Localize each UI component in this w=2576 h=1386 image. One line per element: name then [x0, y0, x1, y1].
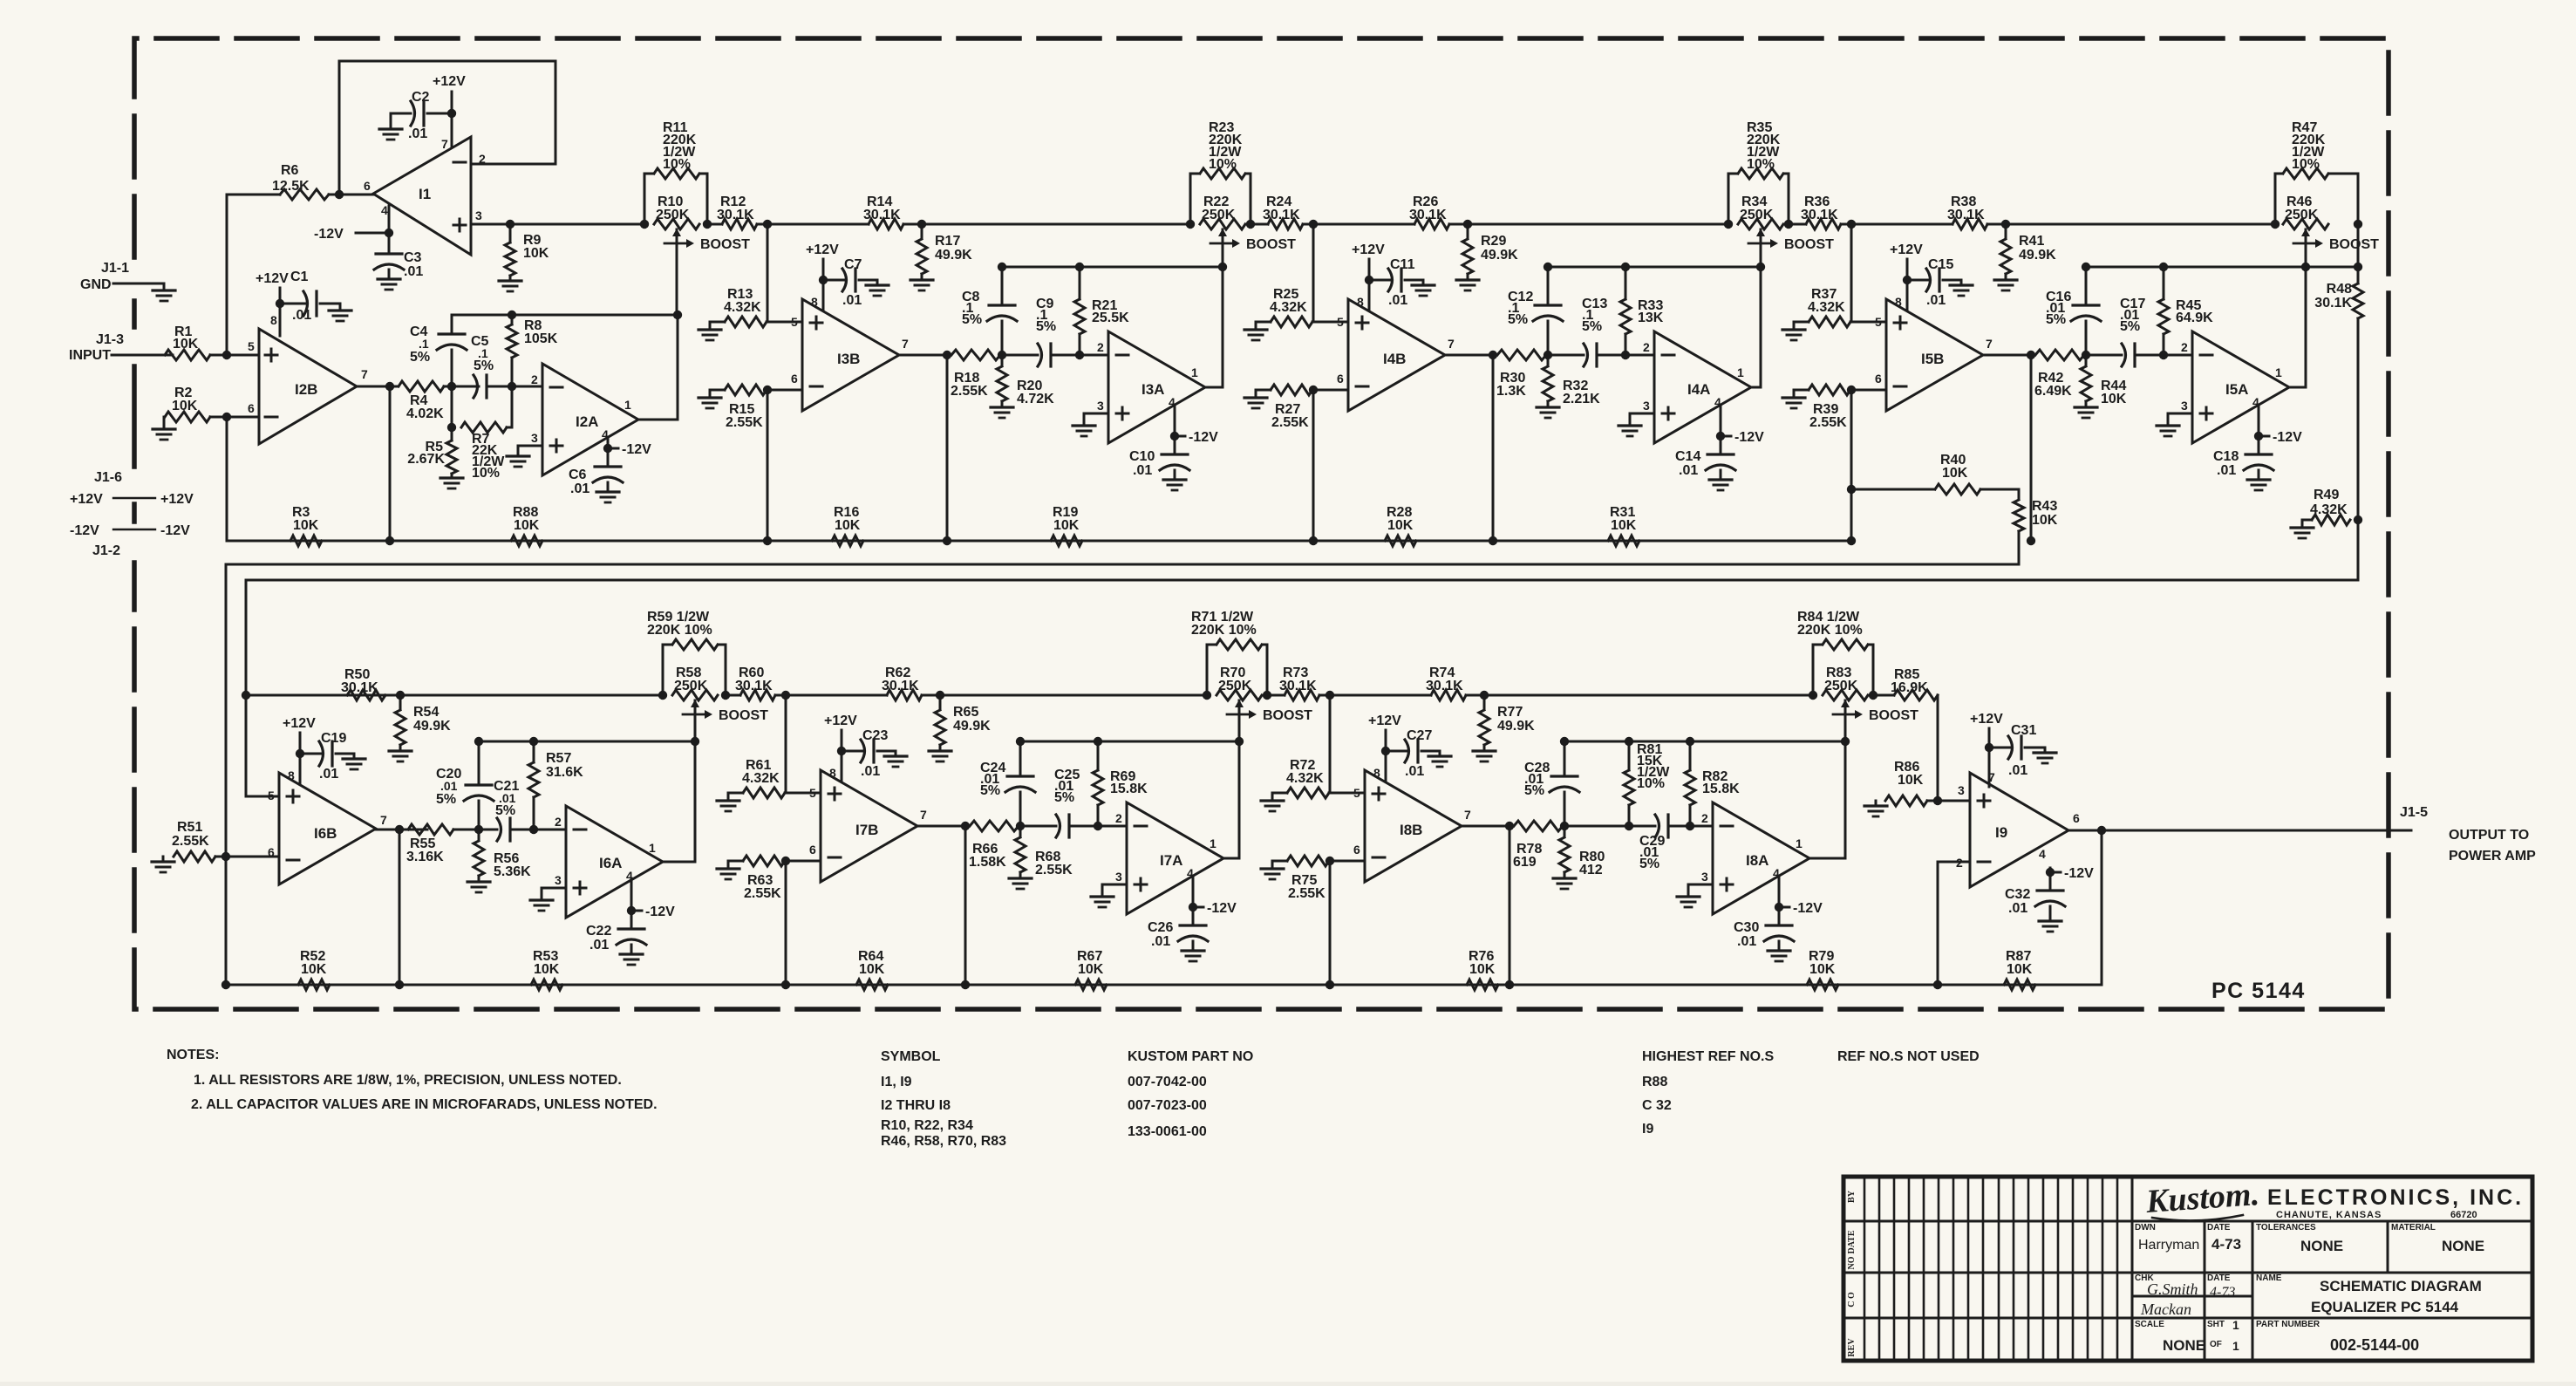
- svg-text:HIGHEST REF NO.S: HIGHEST REF NO.S: [1642, 1049, 1774, 1064]
- node X filter: [1560, 822, 1569, 830]
- potentiometer R10 250K: [640, 220, 649, 229]
- wire cap to R node: [1069, 825, 1127, 828]
- svg-text:10K: 10K: [173, 337, 199, 352]
- svg-text:49.9K: 49.9K: [413, 719, 451, 734]
- svg-text:J1-6: J1-6: [94, 470, 122, 485]
- svg-text:+12V: +12V: [824, 713, 857, 728]
- svg-text:.01: .01: [440, 779, 458, 793]
- boost arrow and label: [1748, 242, 1771, 245]
- svg-text:I2A: I2A: [576, 413, 598, 430]
- svg-text:6: 6: [1353, 843, 1360, 857]
- svg-text:5: 5: [1353, 786, 1360, 800]
- svg-text:4.32K: 4.32K: [1270, 300, 1307, 315]
- svg-text:10K: 10K: [1387, 518, 1414, 533]
- capacitor C16 .01/5%: [2085, 267, 2088, 304]
- svg-text:2. ALL CAPACITOR VALUES ARE: 2. ALL CAPACITOR VALUES ARE IN MICROFARA…: [191, 1097, 658, 1112]
- svg-text:G.Smith: G.Smith: [2147, 1280, 2198, 1298]
- svg-text:15.8K: 15.8K: [1110, 782, 1148, 796]
- wire junction to rail: [389, 386, 392, 541]
- resistor R69 15.8K: [1097, 741, 1100, 770]
- svg-text:DWN: DWN: [2135, 1223, 2156, 1232]
- potentiometer R58 250K: [658, 691, 667, 700]
- wire to -input: [1850, 389, 1886, 392]
- wire to -input: [1312, 389, 1348, 392]
- svg-text:.01: .01: [319, 767, 338, 782]
- op-amp I9: [1970, 773, 2068, 887]
- wire stage6 feedback: [479, 741, 695, 743]
- svg-text:64.9K: 64.9K: [2176, 311, 2213, 325]
- wire pin4 to -12V: [1174, 405, 1176, 436]
- wire pin3 ground stub: [518, 446, 542, 456]
- node cap at feedback wire: [1544, 263, 1552, 271]
- ground at I6A pin3: [530, 898, 553, 901]
- wire bus to input junction: [1850, 224, 1853, 322]
- wire bus to input junction: [785, 695, 787, 793]
- svg-text:10%: 10%: [1747, 157, 1775, 172]
- ground at C14: [1709, 478, 1732, 481]
- svg-text:C30: C30: [1734, 920, 1759, 935]
- svg-text:007-7042-00: 007-7042-00: [1128, 1075, 1207, 1089]
- node wiper feedback: [1235, 737, 1244, 746]
- wire to +input: [1312, 321, 1348, 324]
- node wiper feedback: [2301, 263, 2310, 271]
- svg-text:10K: 10K: [835, 518, 861, 533]
- svg-text:8: 8: [270, 313, 277, 327]
- svg-text:C31: C31: [2011, 723, 2036, 738]
- svg-text:10K: 10K: [514, 518, 540, 533]
- ground at R29: [1456, 278, 1479, 281]
- wire to cap node: [1000, 354, 1038, 357]
- wire to C4 node: [444, 386, 479, 388]
- ground at J1-1: [153, 289, 175, 291]
- svg-text:6: 6: [1875, 372, 1882, 386]
- wire right column to long wire 2: [2357, 520, 2360, 580]
- wire to cap node: [2084, 354, 2122, 357]
- wire bus: [727, 694, 740, 697]
- wire C5 to pin2: [487, 386, 542, 388]
- svg-text:10K: 10K: [293, 518, 319, 533]
- svg-text:2.55K: 2.55K: [744, 886, 781, 901]
- wire cap to R node: [2135, 354, 2192, 357]
- svg-text:NAME: NAME: [2256, 1273, 2282, 1283]
- svg-text:PC 5144: PC 5144: [2211, 979, 2306, 1003]
- ground at R5: [440, 476, 463, 479]
- op-amp I7B: [821, 770, 917, 882]
- ground at op-amp +input: [1688, 884, 1713, 897]
- ground at R41: [1994, 278, 2017, 281]
- resistor R18 2.55K: [951, 350, 1000, 360]
- wire R1 to I2B pin5: [210, 354, 259, 357]
- svg-text:-12V: -12V: [2273, 430, 2302, 445]
- resistor R20 4.72K to ground: [1001, 355, 1004, 365]
- boost arrow and label: [1833, 713, 1856, 716]
- op-amp I2B: [259, 329, 357, 444]
- svg-text:250K: 250K: [1740, 208, 1774, 222]
- wire bus: [1793, 223, 1806, 226]
- svg-text:10%: 10%: [472, 466, 500, 481]
- node R at feedback wire: [1094, 737, 1102, 746]
- node cap at feedback wire: [1560, 737, 1569, 746]
- capacitor C30 .01: [1778, 907, 1781, 925]
- ground at C31: [2034, 751, 2056, 754]
- svg-text:R48: R48: [2327, 282, 2352, 297]
- title block frame: [1843, 1177, 2532, 1361]
- svg-text:13K: 13K: [1638, 311, 1664, 325]
- svg-text:250K: 250K: [1202, 208, 1236, 222]
- svg-text:R77: R77: [1497, 705, 1523, 720]
- svg-text:J1-1: J1-1: [101, 261, 129, 276]
- svg-text:.01: .01: [1679, 463, 1698, 478]
- svg-text:.01: .01: [589, 938, 609, 952]
- op-amp I4B: [1348, 299, 1445, 411]
- svg-text:R88: R88: [1642, 1075, 1667, 1089]
- wire pin4 -12V: [607, 438, 610, 448]
- ground at R75: [1261, 867, 1284, 870]
- op-amp I3A: [1108, 331, 1205, 443]
- svg-text:I3A: I3A: [1141, 381, 1164, 398]
- svg-text:.01: .01: [570, 481, 589, 496]
- boost arrow and label: [1210, 242, 1233, 245]
- svg-text:REV: REV: [1847, 1338, 1857, 1357]
- potentiometer R22 250K: [1186, 220, 1195, 229]
- svg-text:CHANUTE, KANSAS: CHANUTE, KANSAS: [2276, 1210, 2382, 1220]
- wire cap to R node: [1668, 825, 1713, 828]
- wire I1 output to bus: [471, 223, 644, 226]
- ground at C15: [1950, 283, 1973, 286]
- svg-text:2.67K: 2.67K: [407, 452, 445, 467]
- resistor R55 3.16K: [408, 824, 453, 835]
- svg-text:+12V: +12V: [1352, 242, 1385, 257]
- svg-text:2.55K: 2.55K: [172, 834, 209, 849]
- svg-text:I4A: I4A: [1687, 381, 1710, 398]
- svg-text:NONE: NONE: [2300, 1238, 2343, 1254]
- node R8 top: [508, 311, 516, 319]
- ground at C6: [596, 490, 619, 493]
- node R at feedback wire: [1075, 263, 1084, 271]
- label -12V: [1193, 906, 1203, 909]
- op-amp I8B: [1365, 770, 1462, 882]
- wire to cap node: [1563, 825, 1655, 828]
- capacitor C8 .1/5%: [1001, 267, 1004, 304]
- op-amp I5B: [1886, 299, 1983, 411]
- svg-text:4.32K: 4.32K: [1808, 300, 1845, 315]
- svg-text:10K: 10K: [301, 962, 327, 977]
- svg-text:5%: 5%: [436, 792, 456, 807]
- resistor R71 220K feedback: [1207, 645, 1215, 695]
- svg-text:-12V: -12V: [2064, 866, 2094, 881]
- svg-text:ELECTRONICS, INC.: ELECTRONICS, INC.: [2267, 1185, 2524, 1210]
- node wiper feedback: [1841, 737, 1850, 746]
- ground at C10: [1163, 478, 1186, 481]
- ground at C18: [2247, 478, 2270, 481]
- node input junction: [222, 351, 231, 359]
- svg-text:49.9K: 49.9K: [1497, 719, 1535, 734]
- node R2 junction: [222, 413, 231, 421]
- wire cap to R node: [1597, 354, 1654, 357]
- svg-text:R51: R51: [177, 820, 202, 835]
- svg-text:10K: 10K: [859, 962, 885, 977]
- svg-text:-12V: -12V: [1793, 901, 1823, 916]
- wire I4A output to boost wiper: [1751, 267, 1761, 387]
- wire to +input: [785, 792, 821, 795]
- wire +12V to I2B pin8: [279, 288, 282, 336]
- node output to rail: [1489, 351, 1497, 359]
- svg-text:220K 10%: 220K 10%: [1191, 623, 1257, 638]
- svg-text:8: 8: [811, 295, 818, 309]
- resistor R5 2.67K to ground: [451, 427, 453, 440]
- capacitor C6 .01: [607, 448, 610, 466]
- svg-text:1.3K: 1.3K: [1496, 384, 1526, 399]
- wire long interconnect 2: [246, 579, 2358, 582]
- svg-text:.1: .1: [419, 337, 429, 351]
- svg-text:GND: GND: [80, 277, 112, 292]
- svg-text:C O: C O: [1847, 1292, 1857, 1307]
- resistor R40 10K: [1847, 485, 1856, 494]
- label -12V: [1175, 435, 1185, 438]
- ground at R61: [717, 799, 739, 802]
- capacitor C13 series: [1584, 344, 1588, 366]
- svg-text:NONE: NONE: [2442, 1238, 2484, 1254]
- svg-text:C10: C10: [1129, 449, 1155, 464]
- ground at R68: [1009, 877, 1032, 879]
- svg-text:6: 6: [364, 179, 371, 193]
- svg-text:I3B: I3B: [837, 351, 860, 367]
- svg-text:J1-2: J1-2: [92, 543, 120, 558]
- svg-text:SYMBOL: SYMBOL: [881, 1049, 941, 1064]
- resistor R45 64.9K: [2163, 267, 2165, 299]
- resistor R65 49.9K to ground: [936, 691, 944, 700]
- svg-text:25.5K: 25.5K: [1092, 311, 1129, 325]
- svg-text:C1: C1: [290, 270, 309, 284]
- svg-text:J1-3: J1-3: [96, 332, 124, 347]
- ground at I2A pin3: [507, 454, 529, 457]
- resistor R78 619: [1514, 821, 1563, 831]
- svg-text:NONE: NONE: [2163, 1337, 2205, 1354]
- svg-text:5%: 5%: [1036, 319, 1056, 334]
- node R6 output junction: [335, 190, 344, 199]
- Kustom logo swash underline: [2152, 1215, 2243, 1220]
- svg-text:10K: 10K: [2032, 513, 2058, 528]
- svg-text:49.9K: 49.9K: [1481, 248, 1518, 263]
- resistor R59 220K feedback: [663, 645, 671, 695]
- svg-text:1. ALL RESISTORS ARE 1/8W, 1%: 1. ALL RESISTORS ARE 1/8W, 1%, PRECISION…: [194, 1073, 622, 1088]
- svg-text:1: 1: [649, 841, 656, 855]
- ground at C11: [1412, 283, 1435, 286]
- wire bus: [1449, 223, 1728, 226]
- op-amp I2A: [542, 364, 638, 475]
- svg-text:NOTES:: NOTES:: [167, 1048, 219, 1062]
- svg-text:J1-5: J1-5: [2400, 805, 2428, 820]
- wire output junction to rail: [1492, 355, 1495, 541]
- resistor R54 49.9K to ground: [399, 695, 402, 709]
- wire bus: [709, 223, 722, 226]
- node R86 junction: [1933, 796, 1942, 805]
- svg-text:C14: C14: [1675, 449, 1700, 464]
- svg-text:3: 3: [1701, 870, 1708, 884]
- svg-text:R57: R57: [546, 751, 571, 766]
- node wiper feedback: [1218, 263, 1227, 271]
- svg-text:I6B: I6B: [314, 825, 337, 842]
- resistor R41 49.9K to ground: [2001, 220, 2010, 229]
- node output to rail: [2027, 351, 2035, 359]
- svg-text:3: 3: [1958, 783, 1965, 797]
- svg-text:SCALE: SCALE: [2135, 1320, 2164, 1329]
- wire row2 ground rail: [226, 984, 2102, 987]
- ground at R49: [2291, 526, 2314, 529]
- svg-text:49.9K: 49.9K: [953, 719, 991, 734]
- svg-text:3: 3: [531, 431, 538, 445]
- svg-text:REF NO.S NOT USED: REF NO.S NOT USED: [1837, 1049, 1980, 1064]
- wire I2B pin6 to rail: [226, 417, 228, 541]
- capacitor C4 .1 5%: [451, 315, 453, 333]
- wire C21 to R57 node: [529, 825, 538, 834]
- op-amp I5A: [2192, 331, 2289, 443]
- svg-text:5%: 5%: [1524, 783, 1544, 798]
- svg-text:7: 7: [1464, 808, 1471, 822]
- svg-text:3: 3: [2181, 399, 2188, 413]
- ground at op-amp +input: [1102, 884, 1127, 897]
- svg-text:C3: C3: [404, 250, 422, 265]
- op-amp I1: [373, 137, 471, 255]
- node X stage6: [474, 825, 483, 834]
- ground at R72: [1261, 799, 1284, 802]
- wire I6B output: [376, 829, 427, 831]
- ground at R17: [910, 278, 933, 281]
- potentiometer R46 250K: [2271, 220, 2280, 229]
- svg-text:C26: C26: [1148, 920, 1173, 935]
- resistor R57 31.6K: [533, 741, 535, 762]
- node cap at feedback wire: [998, 263, 1006, 271]
- svg-text:2.55K: 2.55K: [1809, 415, 1847, 430]
- wire -input junction to rail: [1850, 390, 1853, 541]
- ground at R63: [717, 867, 739, 870]
- svg-text:31.6K: 31.6K: [546, 765, 583, 780]
- wire to +input: [1329, 792, 1365, 795]
- svg-text:2.55K: 2.55K: [1271, 415, 1309, 430]
- svg-text:7: 7: [1986, 337, 1993, 351]
- ground at C22: [620, 952, 643, 955]
- wire I6A output riser: [662, 741, 695, 862]
- svg-text:1: 1: [1191, 365, 1198, 379]
- svg-text:C32: C32: [2005, 887, 2030, 902]
- op-amp I8A: [1713, 802, 1809, 914]
- ground at R65: [929, 749, 951, 752]
- wire to C20 node: [453, 829, 497, 831]
- wire I1 feedback loop: [339, 61, 555, 195]
- svg-text:3.16K: 3.16K: [406, 850, 444, 864]
- wire feedback to R48: [2306, 266, 2358, 269]
- resistor R44 10K to ground: [2085, 355, 2088, 365]
- wire stage2 feedback: [452, 314, 678, 317]
- capacitor C14 .01: [1720, 436, 1722, 454]
- label -12V: [2259, 435, 2269, 438]
- svg-text:4-73: 4-73: [2210, 1285, 2235, 1300]
- svg-text:105K: 105K: [524, 331, 558, 346]
- svg-text:R54: R54: [413, 705, 439, 720]
- svg-text:I8B: I8B: [1400, 822, 1422, 838]
- svg-text:1: 1: [1737, 365, 1744, 379]
- svg-text:I1: I1: [419, 186, 431, 202]
- wire I2A output riser: [638, 315, 678, 420]
- resistor R21 25.5K: [1079, 267, 1081, 299]
- svg-text:2.21K: 2.21K: [1563, 392, 1600, 406]
- capacitor C9 series: [1038, 344, 1042, 366]
- svg-text:R6: R6: [281, 163, 299, 178]
- node I6B output junction: [395, 825, 404, 834]
- resistor R77 49.9K to ground: [1480, 691, 1489, 700]
- ground at C19: [343, 757, 365, 760]
- label -12V: [1721, 435, 1731, 438]
- ground at R44: [2075, 406, 2097, 408]
- svg-text:10K: 10K: [534, 962, 560, 977]
- svg-text:3: 3: [475, 208, 482, 222]
- resistor R8 105K: [511, 315, 514, 324]
- node R54 tap: [396, 691, 405, 700]
- capacitor C29 series: [1655, 815, 1659, 837]
- node R at feedback wire: [2159, 263, 2168, 271]
- svg-text:KUSTOM PART NO: KUSTOM PART NO: [1128, 1049, 1253, 1064]
- resistor R7 22K 1/2W 10%: [451, 386, 453, 427]
- svg-text:EQUALIZER PC 5144: EQUALIZER PC 5144: [2311, 1299, 2459, 1315]
- svg-text:5%: 5%: [1054, 790, 1074, 805]
- svg-text:Harryman: Harryman: [2138, 1238, 2199, 1253]
- resistor R42 6.49K: [2035, 350, 2084, 360]
- svg-text:BOOST: BOOST: [1246, 237, 1296, 252]
- op-amp I3B: [802, 299, 899, 411]
- svg-text:7: 7: [380, 813, 387, 827]
- svg-text:C23: C23: [862, 728, 888, 743]
- wire R46 right to R48 column: [2357, 224, 2360, 267]
- svg-text:+12V: +12V: [806, 242, 839, 257]
- wire +12V stub: [1906, 259, 1909, 310]
- wire output to rail: [2101, 830, 2103, 985]
- svg-text:DATE: DATE: [2207, 1223, 2231, 1232]
- resistor R9 10K: [509, 224, 512, 242]
- svg-text:2.55K: 2.55K: [1035, 863, 1073, 877]
- capacitor C12 .1/5%: [1547, 267, 1550, 304]
- svg-text:.01: .01: [1151, 934, 1170, 949]
- svg-text:R10, R22, R34: R10, R22, R34: [881, 1118, 973, 1133]
- resistor R66 1.58K: [970, 821, 1019, 831]
- svg-text:.01: .01: [861, 764, 880, 779]
- wire to -input: [767, 389, 802, 392]
- wire -input junction to rail: [767, 390, 769, 541]
- svg-text:I9: I9: [1642, 1122, 1653, 1137]
- svg-text:10K: 10K: [1469, 962, 1496, 977]
- svg-text:4: 4: [381, 203, 388, 217]
- svg-text:4-73: 4-73: [2211, 1236, 2241, 1253]
- svg-text:7: 7: [361, 367, 368, 381]
- svg-text:619: 619: [1513, 855, 1537, 870]
- svg-text:1: 1: [1210, 836, 1216, 850]
- wire bus: [922, 694, 1207, 697]
- svg-text:250K: 250K: [656, 208, 690, 222]
- svg-text:8: 8: [1357, 295, 1364, 309]
- ground at C26: [1182, 949, 1204, 952]
- svg-text:10%: 10%: [1637, 776, 1665, 791]
- node output junction: [2097, 826, 2106, 835]
- capacitor C25 series: [1056, 815, 1060, 837]
- svg-text:-12V: -12V: [70, 523, 99, 538]
- svg-text:5%: 5%: [474, 358, 494, 373]
- svg-text:7: 7: [441, 137, 448, 151]
- node R at feedback wire: [1686, 737, 1694, 746]
- svg-text:007-7023-00: 007-7023-00: [1128, 1098, 1207, 1113]
- op-amp I6B: [279, 773, 376, 884]
- resistor R82 15.8K: [1689, 741, 1692, 770]
- svg-text:12.5K: 12.5K: [272, 179, 310, 194]
- svg-text:6: 6: [791, 372, 798, 386]
